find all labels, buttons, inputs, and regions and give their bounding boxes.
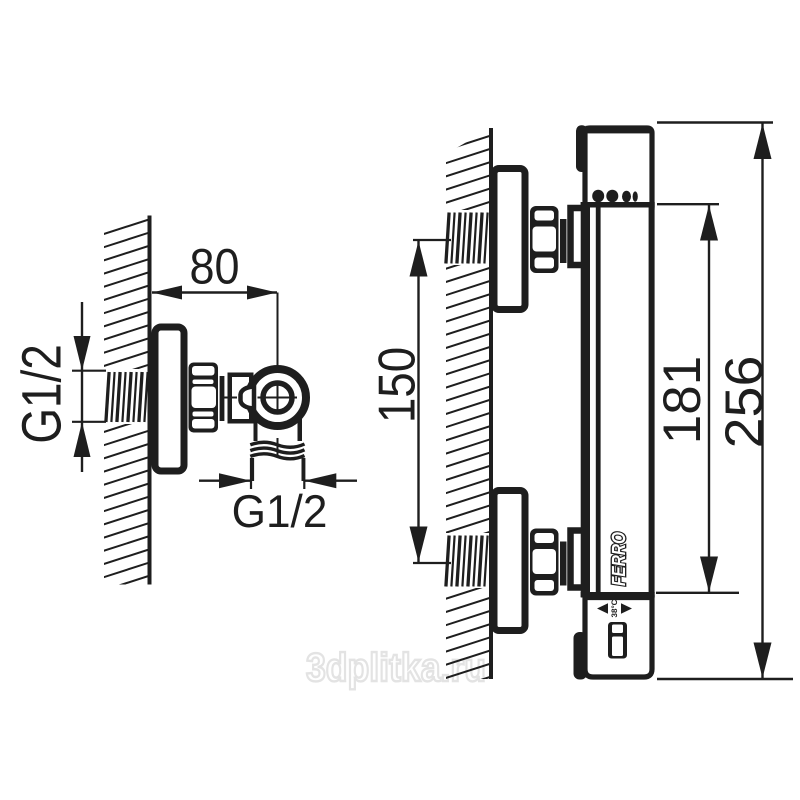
ring body (outer) (249, 369, 306, 426)
ring body (inner hole) (263, 383, 292, 412)
right upper flange (494, 169, 525, 310)
left wall pipe thread (106, 372, 148, 422)
right upper washer (560, 219, 567, 263)
svg-text:181: 181 (653, 356, 712, 444)
right upper nut (530, 206, 559, 273)
dim G1/2 left: line and arrows (72, 302, 106, 472)
bar head (585, 128, 652, 207)
right lower washer (560, 542, 567, 586)
right wall thread holes (white) (444, 210, 490, 265)
head dots (592, 190, 638, 203)
svg-text:FERRO: FERRO (609, 532, 630, 586)
left nut (189, 363, 219, 433)
dim 181 (656, 204, 739, 593)
left connector body (230, 375, 252, 422)
center line vertical (left figure) (277, 293, 279, 456)
left wall thread hole (white) (104, 369, 148, 424)
svg-text:256: 256 (715, 356, 774, 449)
body bottom separation line (581, 592, 655, 598)
left washer (220, 376, 225, 421)
left pipe below ring (254, 415, 303, 441)
left wall hatching (100, 204, 156, 605)
center line horizontal (left figure) (222, 397, 309, 399)
svg-text:150: 150 (369, 347, 427, 423)
control section (585, 598, 652, 678)
dim 150 (410, 240, 452, 563)
control tab (black pill) (574, 632, 588, 680)
svg-text:3dplitka.ru: 3dplitka.ru (306, 646, 486, 690)
left wall face line (148, 216, 152, 585)
left flange (155, 327, 184, 471)
svg-text:G1/2: G1/2 (10, 344, 73, 444)
right upper pipe thread (446, 213, 488, 264)
dim 80 line (152, 286, 277, 300)
right lower flange (494, 491, 525, 631)
right wall hatching (442, 120, 498, 692)
dim 256 (657, 123, 793, 680)
right lower nut (530, 529, 559, 596)
right lower boss (571, 531, 589, 588)
left bottom pipe section (252, 458, 305, 481)
svg-text:G1/2: G1/2 (232, 485, 328, 537)
temperature slider (608, 622, 627, 659)
bar body (581, 202, 655, 597)
right wall face line (489, 128, 493, 679)
ring left nib (241, 387, 255, 409)
svg-text:80: 80 (189, 239, 239, 295)
head bottom line (581, 202, 655, 208)
svg-text:38°C: 38°C (610, 599, 619, 617)
right upper boss (571, 208, 589, 265)
left bottom thread (250, 442, 304, 459)
38C label with triangles (597, 599, 632, 617)
watermark 3dplitka.ru (306, 646, 486, 690)
right lower pipe thread (446, 536, 488, 587)
dim G1/2 bottom: extension lines, line, arrows (199, 458, 357, 489)
head tab (black pill) (576, 125, 588, 172)
